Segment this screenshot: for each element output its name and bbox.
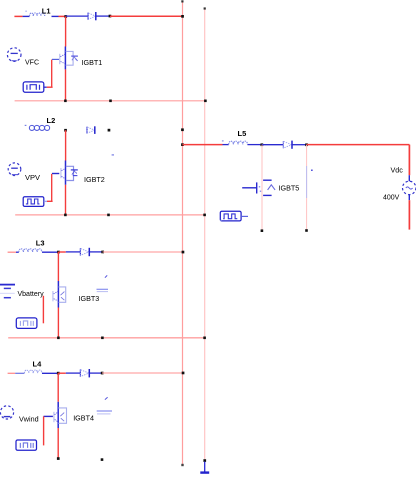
wire Vdc vertical bottom <box>408 200 410 229</box>
svg-text:L4: L4 <box>33 359 43 368</box>
wire blue after D5 <box>292 144 307 146</box>
wire emitter2 red <box>65 185 67 215</box>
wire Vdc vertical top <box>408 145 410 176</box>
wire row1 red to left bus <box>110 15 183 17</box>
wire vertical collector1 red <box>65 16 67 46</box>
rail1 bottom <box>15 100 207 103</box>
wire collector4 red <box>57 373 59 402</box>
wire gate3 vertical red <box>42 296 44 324</box>
diode D2 <box>87 126 95 134</box>
svg-text:400V: 400V <box>383 195 400 202</box>
transistor IGBT5 <box>242 180 275 195</box>
junction dot B3 <box>101 251 104 254</box>
stub mark section2 <box>112 154 114 155</box>
wire row3 blue to diode <box>66 251 81 253</box>
pulse generator PG4 <box>16 440 37 450</box>
wire vertical mid2 pale <box>305 145 308 232</box>
inductor L4 <box>15 370 58 373</box>
ground <box>200 462 209 473</box>
wire row1 left red <box>14 15 22 17</box>
inductor L3 <box>16 249 58 252</box>
junction dot leftbus feed <box>181 143 184 146</box>
diode D1 <box>88 12 96 20</box>
svg-text:L1: L1 <box>42 6 51 15</box>
inductor L5 <box>222 140 262 144</box>
wire red to Vdc corner <box>307 144 410 146</box>
wire gate2 vertical red <box>51 174 53 202</box>
IGBT4 displaced diode marks <box>97 397 112 414</box>
svg-text:Vwind: Vwind <box>19 415 39 424</box>
source Vdc <box>403 175 416 200</box>
junction dot A1 <box>64 15 67 18</box>
wire PG2 output <box>44 200 53 202</box>
svg-text:L2: L2 <box>47 116 56 125</box>
junction dot B5 <box>305 143 308 146</box>
wire row1 lead blue right <box>52 15 59 17</box>
svg-text:IGBT4: IGBT4 <box>73 414 94 423</box>
wire row4 red mid <box>58 372 66 374</box>
wire row1 lead blue left <box>23 15 30 17</box>
transistor IGBT4 <box>44 402 67 428</box>
inductor L1 <box>25 11 44 16</box>
pulse generator PG1 <box>23 82 44 92</box>
wire collector3 red <box>57 252 59 281</box>
rail2 bottom <box>15 214 206 217</box>
wire row3 red to left bus <box>103 251 183 253</box>
wire row3 red mid <box>58 251 65 253</box>
svg-text:Vdc: Vdc <box>391 166 404 175</box>
pulse generator PG3 <box>16 318 37 329</box>
wire row4 blue to diode <box>66 372 81 374</box>
wire emitter3 red <box>57 308 59 338</box>
wire row1 blue after diode <box>96 15 110 17</box>
svg-text:IGBT2: IGBT2 <box>84 175 105 184</box>
svg-text:VFC: VFC <box>25 60 39 67</box>
junction dot row1/left-bus <box>181 15 184 18</box>
diode D3 <box>80 248 89 256</box>
wire collector2 red <box>65 130 67 160</box>
svg-text:L3: L3 <box>36 238 45 247</box>
source VFC <box>7 48 21 62</box>
wire vertical mid1 pale <box>261 145 264 232</box>
IGBT3 displaced diode marks <box>97 275 109 291</box>
junction dot leftbus row L2 <box>181 128 184 131</box>
junction dot row3/left-bus <box>182 251 185 254</box>
transistor IGBT3 <box>53 281 66 308</box>
svg-text:VPV: VPV <box>25 173 40 182</box>
transistor IGBT2 <box>52 161 78 185</box>
junction dot A3 <box>57 251 60 254</box>
source Vwind <box>0 406 13 419</box>
svg-text:IGBT5: IGBT5 <box>279 184 300 193</box>
wire PG1 output <box>44 86 53 88</box>
transistor IGBT1 <box>52 47 78 70</box>
junction dot A5 <box>261 143 264 146</box>
pulse generator PG2 <box>23 197 44 207</box>
wire gate1 vertical red <box>51 60 53 88</box>
wire blue to diode D5 <box>262 144 283 146</box>
inductor L2 <box>25 125 50 131</box>
wire row3 blue after diode <box>89 251 102 253</box>
diode D4 <box>80 369 89 377</box>
battery Vbattery <box>0 285 15 298</box>
junction dot B1 <box>109 15 112 18</box>
wire row4 blue after diode <box>89 372 102 374</box>
wire row3 left red <box>8 251 16 253</box>
isolated dot section4 <box>101 458 104 461</box>
wire row1 blue to diode <box>66 15 88 17</box>
source VPV <box>8 163 21 176</box>
wire row4 left red <box>8 372 16 374</box>
wire PG5 output <box>241 215 248 217</box>
junction dot row4/left-bus <box>182 372 185 375</box>
bus left vertical <box>181 0 183 466</box>
junction dot A4 <box>57 372 60 375</box>
junction dot B2 <box>108 129 111 132</box>
svg-text:L5: L5 <box>238 129 247 138</box>
rail3 bottom <box>8 337 206 340</box>
wire emitter1 red <box>65 69 67 101</box>
bus right vertical <box>203 7 206 462</box>
wire feed red to L5 <box>182 144 222 146</box>
junction dot B4 <box>101 372 104 375</box>
wire row4 red to left bus <box>102 372 183 374</box>
svg-text:IGBT3: IGBT3 <box>79 294 100 303</box>
svg-text:Vbattery: Vbattery <box>18 291 45 298</box>
wire gate4 vertical red <box>43 416 45 445</box>
diode D5 <box>283 141 292 149</box>
wire emitter4 red <box>57 428 60 460</box>
junction dot A2 <box>64 129 67 132</box>
stub dot right section <box>311 170 313 172</box>
svg-text:IGBT1: IGBT1 <box>82 58 103 67</box>
wire row1 red mid <box>59 15 66 17</box>
pulse generator PG5 <box>220 211 241 221</box>
